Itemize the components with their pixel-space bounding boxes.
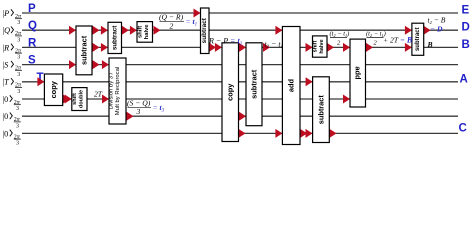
svg-text:= D: = D: [430, 24, 443, 33]
arrow into add U10 wire8: [275, 129, 282, 138]
arrow into divide U6 wire S: [102, 60, 109, 69]
add U10: [282, 27, 300, 145]
arrow into add U13 wire3: [343, 43, 350, 52]
svg-text:shift: shift: [72, 93, 78, 105]
svg-text:2T: 2T: [94, 90, 103, 99]
svg-text:subtract: subtract: [317, 95, 326, 125]
svg-text:D: D: [462, 22, 470, 34]
arrow into subtract U2 wire Q: [101, 26, 108, 35]
svg-text:Division by 3 /: Division by 3 /: [109, 72, 115, 109]
arrow into copy U4 wire T: [37, 77, 44, 86]
svg-text:3: 3: [16, 106, 19, 112]
subtract U9: [246, 43, 262, 126]
wire 2 Q-D: [22, 29, 458, 31]
svg-text:3: 3: [16, 141, 19, 147]
svg-text:|R: |R: [3, 43, 10, 52]
arrow out of U2 wire Q: [122, 26, 129, 35]
arrow into subtract U14 wire3: [405, 43, 412, 52]
svg-text:subtract: subtract: [250, 69, 259, 99]
copy U4: [44, 74, 62, 106]
wire 4 S: [22, 64, 458, 66]
arrow into add U10 wire2: [275, 26, 282, 35]
subtract U2: [108, 22, 122, 53]
svg-text:3: 3: [136, 107, 141, 116]
svg-text:A: A: [460, 73, 468, 85]
svg-text:3: 3: [17, 55, 20, 61]
svg-text:R: R: [28, 37, 37, 49]
svg-text:3: 3: [17, 89, 20, 95]
svg-text:|S: |S: [3, 61, 9, 70]
arrow into subtract U9 wire7: [239, 112, 246, 121]
arrow into subtract U2 wire R: [101, 43, 108, 52]
wire 1 P-E: [22, 12, 458, 14]
svg-text:3: 3: [17, 37, 20, 43]
svg-text:S: S: [28, 55, 36, 67]
copy U8: [222, 43, 239, 142]
svg-text:add: add: [353, 66, 362, 80]
shift-halve U3: [137, 22, 153, 43]
wire 8 anc3-C: [22, 132, 458, 134]
svg-text:subtract: subtract: [80, 35, 89, 65]
svg-text:P: P: [28, 3, 36, 15]
wire 5 T-A: [22, 81, 458, 83]
subtract U14: [412, 23, 424, 55]
arrow out of add U10 wire8: [300, 129, 307, 138]
arrow into shift-halve U3 wire Q: [130, 26, 137, 35]
arrow out of U7 wire R: [209, 43, 216, 52]
svg-text:+ 2T = B: + 2T = B: [383, 36, 413, 45]
svg-text:B: B: [427, 40, 433, 49]
arrow out of divide U6 wire7: [127, 112, 134, 121]
arrow into shift-double U5 wire6: [65, 95, 72, 104]
arrow into subtract U12 wire8: [306, 129, 313, 138]
svg-text:3: 3: [17, 72, 20, 78]
arrow out of U11 wire3: [327, 43, 334, 52]
arrow out of copy U4 wire6: [63, 95, 70, 104]
arrow into copy U8 wire R: [215, 43, 222, 52]
arrow out of U1 wire Q: [93, 26, 100, 35]
svg-text:E: E: [462, 5, 470, 17]
shift-halve U11: [313, 36, 328, 57]
arrow out of copy U8 wire8: [239, 129, 246, 138]
svg-text:3: 3: [17, 20, 20, 26]
divide-by-3 U6: [109, 58, 126, 124]
arrow into subtract U14 wire2: [405, 26, 412, 35]
arrow into add U13 wire6: [343, 95, 350, 104]
arrow out of subtract U9 wire3: [263, 43, 270, 52]
arrow out of add U13 wire3: [366, 43, 373, 52]
arrow out of U3 wire Q: [154, 26, 161, 35]
svg-text:add: add: [287, 78, 296, 92]
arrow into shift-halve U11 wire3: [306, 43, 313, 52]
svg-text:(Q − R): (Q − R): [159, 13, 184, 22]
svg-text:Q: Q: [28, 20, 37, 32]
svg-text:Mult by Reciprocal: Mult by Reciprocal: [115, 67, 121, 115]
subtract U7: [201, 8, 210, 54]
arrow out of copy U8 into subtract U9 wire3: [239, 43, 246, 52]
svg-text:3: 3: [16, 123, 19, 129]
arrow out of U1 wire R: [93, 43, 100, 52]
svg-text:|P: |P: [3, 9, 10, 18]
add U13: [350, 39, 366, 107]
arrow out of subtract U14 wire2: [424, 26, 431, 35]
svg-text:B: B: [462, 39, 470, 51]
svg-text:copy: copy: [49, 80, 58, 98]
arrow into subtract U7 wire P: [194, 9, 201, 18]
svg-text:subtract: subtract: [415, 27, 421, 51]
wire 6 anc1: [22, 98, 458, 100]
svg-text:|0: |0: [3, 129, 9, 138]
svg-text:2: 2: [170, 22, 174, 31]
wire 7 anc2: [22, 115, 458, 117]
svg-text:copy: copy: [226, 83, 235, 101]
arrow into divide U6 wire6 after 2T: [102, 95, 109, 104]
arrow out of subtract U12 wire8: [330, 129, 337, 138]
svg-text:halve: halve: [319, 39, 325, 53]
subtract U1: [76, 26, 92, 75]
svg-text:|Q: |Q: [3, 26, 11, 35]
svg-text:double: double: [79, 90, 85, 108]
svg-text:halve: halve: [144, 24, 150, 40]
svg-text:|0: |0: [3, 112, 9, 121]
svg-text:|0: |0: [3, 95, 9, 104]
arrow out of U1 wire S: [93, 60, 100, 69]
svg-text:C: C: [459, 123, 467, 135]
arrow into subtract U1 on wire Q: [69, 26, 76, 35]
subtract U12: [313, 77, 330, 143]
wire 3 R-B: [22, 46, 458, 48]
svg-text:subtract: subtract: [201, 17, 208, 43]
svg-text:shift: shift: [138, 26, 144, 38]
arrow into subtract U1 on wire S: [69, 60, 76, 69]
svg-text:subtract: subtract: [111, 26, 118, 50]
svg-text:shift: shift: [313, 40, 319, 52]
shift-double U5: [72, 88, 87, 111]
arrow into subtract U12 wire5: [306, 77, 313, 86]
svg-text:(t2 − t1): (t2 − t1): [330, 31, 350, 38]
